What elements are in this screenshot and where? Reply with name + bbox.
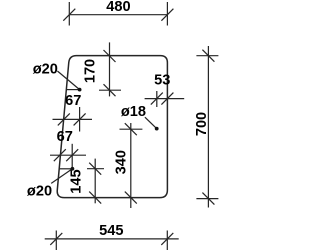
- svg-text:170: 170: [83, 59, 99, 83]
- dimension 545: left tick: [50, 233, 62, 245]
- dimension 340: top extension line: [120, 128, 143, 130]
- dimension 170: bottom extension line: [99, 89, 121, 91]
- dimension 170: dim line: [109, 42, 111, 96]
- dimension 700: top tick: [202, 50, 214, 62]
- svg-text:67: 67: [57, 129, 73, 145]
- dimension 67 lower: left tick: [54, 149, 66, 161]
- dimension 480: right extension line: [166, 2, 168, 26]
- svg-text:145: 145: [68, 169, 84, 193]
- hole ø20 bottom-left: centerline to edge: [59, 168, 72, 170]
- hole ø20 bottom-left: leader line: [51, 169, 72, 184]
- dimension 480 top: dim line: [69, 14, 167, 16]
- svg-text:ø20: ø20: [33, 62, 58, 78]
- hole ø20 top-left: center dot: [78, 88, 82, 92]
- svg-text:340: 340: [114, 150, 130, 174]
- dimension 145: top extension line: [87, 168, 104, 170]
- hole ø20 top-left: leader line: [57, 71, 79, 90]
- dimension 145: bottom tick: [89, 192, 101, 204]
- dimension 700 right: dim line: [207, 46, 209, 208]
- hole ø20 top-left: centerline to edge: [66, 89, 79, 91]
- dimension 67 upper: left tick: [58, 113, 70, 125]
- dimension 700: top extension line: [196, 55, 218, 57]
- svg-text:53: 53: [154, 72, 170, 88]
- dimension 170: top tick: [104, 50, 116, 62]
- svg-text:67: 67: [65, 93, 81, 109]
- dimension 545: right tick: [161, 233, 173, 245]
- dimension 545: right extension line: [166, 231, 168, 250]
- dimension 53: left extension line: [156, 91, 158, 107]
- svg-text:ø18: ø18: [121, 104, 146, 120]
- dimension 700: bottom tick: [202, 193, 214, 205]
- dimension 545: left extension line: [55, 231, 57, 250]
- dimension 480: left extension line: [68, 2, 70, 26]
- dimension 480: left tick: [63, 9, 75, 21]
- hole ø18 right: leader line: [145, 117, 157, 128]
- hole ø18 right: center dot: [155, 127, 159, 131]
- dimension 67 upper: right tick: [74, 113, 86, 125]
- dimension 170: bottom tick: [104, 84, 116, 96]
- svg-text:700: 700: [194, 112, 210, 136]
- dimension 480: right tick: [161, 9, 173, 21]
- dimension 340: dim line: [130, 123, 132, 208]
- plate outline (trapezoid glass pane, rounded corners): [57, 56, 167, 198]
- svg-text:ø20: ø20: [27, 183, 52, 199]
- dimension 53: right tick: [161, 93, 173, 105]
- dimension 67 lower: dim line: [50, 154, 86, 156]
- dimension 67 lower: hole extension line: [71, 144, 73, 169]
- dimension 67 lower: right tick: [66, 149, 78, 161]
- hole ø20 bottom-left: center dot: [71, 167, 75, 171]
- dimension 145: dim line: [94, 159, 96, 204]
- dimension 340: bottom tick: [125, 192, 137, 204]
- dimension 545 bottom: dim line: [45, 238, 179, 240]
- dimension 700: bottom extension line: [196, 198, 218, 200]
- dimension 53: left tick: [151, 93, 163, 105]
- svg-text:545: 545: [99, 223, 123, 239]
- dimension 67 upper: dim line: [53, 118, 93, 120]
- dimension 145: top tick: [89, 163, 101, 175]
- svg-text:480: 480: [106, 0, 130, 15]
- dimension 53: dim line: [145, 98, 185, 100]
- dimension 340: top tick: [125, 123, 137, 135]
- dimension 67 upper: hole extension line: [79, 107, 81, 132]
